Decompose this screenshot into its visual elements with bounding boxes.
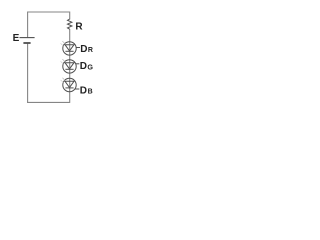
svg-text:R: R <box>88 47 93 54</box>
battery E <box>20 38 35 43</box>
wire left rail lower (battery down to bottom corner) <box>27 43 29 103</box>
svg-text:G: G <box>87 62 93 71</box>
wire right rail from top corner to resistor <box>69 12 71 20</box>
svg-text:E: E <box>13 33 20 44</box>
leader dash D_B <box>75 88 79 90</box>
label D_R <box>80 44 93 55</box>
label E <box>13 33 20 44</box>
leader dash D_G <box>76 63 79 65</box>
label D_G <box>80 61 94 72</box>
wire right rail through LEDs to bottom corner <box>69 29 71 103</box>
leader dash D_R <box>76 47 80 49</box>
svg-text:B: B <box>88 89 93 96</box>
wire bottom return <box>27 101 70 103</box>
LED D_G <box>61 59 77 73</box>
resistor R <box>68 19 72 29</box>
label D_B <box>80 85 93 96</box>
svg-text:D: D <box>80 85 87 96</box>
wire left rail upper (battery to top corner) <box>27 12 29 38</box>
svg-text:R: R <box>75 21 83 32</box>
LED D_B <box>61 78 77 92</box>
LED D_R <box>61 41 77 55</box>
svg-text:D: D <box>80 61 87 72</box>
wire top from battery to resistor branch <box>28 11 70 13</box>
label R <box>75 21 83 32</box>
svg-text:D: D <box>80 44 87 55</box>
